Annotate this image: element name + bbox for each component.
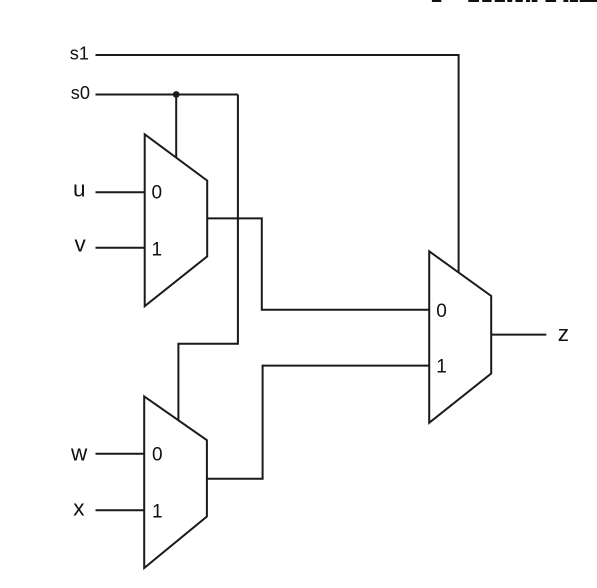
mux U1 (top-left 2:1 multiplexer trapezoid) [145, 134, 208, 306]
wire s0 down, jog left, down to mux U2 select [178, 95, 238, 421]
cropped heading text remnant at top edge [432, 0, 597, 2]
svg-text:x: x [73, 496, 85, 521]
svg-text:1: 1 [152, 240, 163, 261]
svg-text:1: 1 [152, 502, 163, 523]
wire w input [96, 453, 145, 455]
wire s1 horizontal then down to mux U3 select [96, 55, 459, 272]
svg-text:0: 0 [436, 301, 447, 322]
svg-text:u: u [73, 177, 86, 202]
wire s0 horizontal [96, 94, 238, 96]
junction dot on s0 [173, 91, 180, 98]
wire u input [96, 191, 145, 193]
wire mux U2 output up to mux U3 input 1 [207, 366, 429, 479]
svg-text:w: w [70, 441, 88, 466]
svg-text:s0: s0 [71, 83, 90, 103]
svg-text:s1: s1 [70, 44, 89, 64]
svg-text:0: 0 [152, 183, 163, 204]
wire mux U3 output [491, 334, 546, 336]
svg-text:0: 0 [152, 445, 163, 466]
wire x input [96, 509, 145, 511]
wire s0 branch down to mux U1 select [175, 95, 177, 158]
svg-text:z: z [558, 321, 569, 346]
mux U2 (bottom-left 2:1 multiplexer trapezoid) [144, 396, 207, 568]
wire mux U1 output to mux U3 input 0 [207, 218, 429, 309]
mux U3 (right 2:1 multiplexer trapezoid) [429, 251, 491, 422]
svg-text:1: 1 [436, 357, 447, 378]
wire v input [96, 247, 145, 249]
svg-text:v: v [75, 232, 87, 257]
